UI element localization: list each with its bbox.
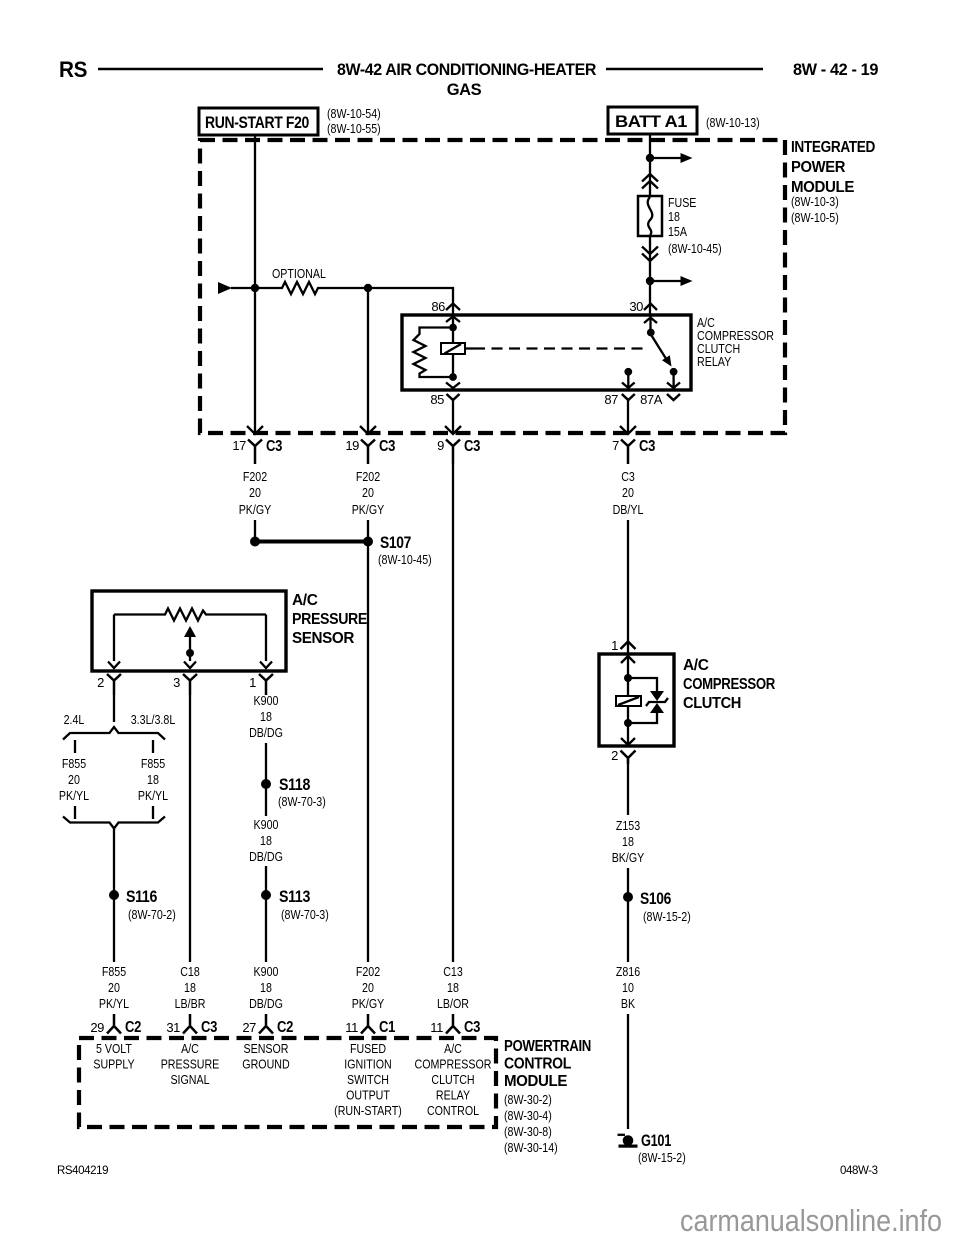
svg-text:SENSOR: SENSOR — [244, 1041, 289, 1056]
node clutch top junction — [624, 674, 632, 682]
svg-text:PRESSURE: PRESSURE — [161, 1057, 220, 1072]
svg-text:K900: K900 — [254, 693, 279, 708]
wire label C18 18 LB/BR — [175, 964, 206, 1011]
node splice S118 — [261, 779, 271, 789]
svg-text:1: 1 — [249, 675, 256, 690]
svg-text:COMPRESSOR: COMPRESSOR — [415, 1057, 492, 1072]
svg-text:Z153: Z153 — [616, 818, 640, 833]
svg-text:87A: 87A — [640, 392, 663, 407]
resistor OPTIONAL — [279, 282, 321, 294]
svg-text:DB/YL: DB/YL — [613, 502, 644, 517]
wire junction down to connector 19 C3 — [367, 288, 369, 433]
node splice dot right S107 — [363, 537, 373, 547]
border exit arrow at 7 C3 — [620, 426, 636, 434]
svg-text:18: 18 — [147, 772, 159, 787]
svg-text:GAS: GAS — [447, 81, 482, 99]
svg-text:(8W-10-45): (8W-10-45) — [378, 552, 432, 567]
resistor sensor element — [114, 609, 266, 621]
svg-text:19: 19 — [345, 438, 359, 453]
svg-text:10: 10 — [622, 980, 634, 995]
svg-text:S107: S107 — [380, 533, 411, 552]
svg-text:18: 18 — [260, 833, 272, 848]
brace split top — [63, 727, 165, 740]
wire pin 30 to pivot — [649, 315, 651, 331]
label POWERTRAIN CONTROL MODULE — [504, 1038, 591, 1155]
wire label Z153 18 BK/GY — [612, 818, 645, 865]
wire wiper to pin 3 — [189, 636, 191, 661]
svg-text:PK/GY: PK/GY — [239, 502, 272, 517]
label A/C COMPRESSOR CLUTCH — [683, 657, 775, 712]
svg-text:(8W-30-8): (8W-30-8) — [504, 1124, 552, 1139]
svg-text:F855: F855 — [102, 964, 126, 979]
svg-text:86: 86 — [431, 299, 445, 314]
node lower branch junction — [646, 277, 654, 285]
svg-text:INTEGRATED: INTEGRATED — [791, 139, 875, 156]
wire label C13 18 LB/OR — [437, 964, 469, 1011]
wire 2.4L branch lower — [74, 806, 76, 819]
svg-text:20: 20 — [622, 485, 634, 500]
diode bar with zener tails — [646, 698, 668, 706]
svg-text:2: 2 — [97, 675, 104, 690]
wire pin 1 to splice S118 — [265, 743, 267, 816]
PCM — [79, 964, 591, 1155]
svg-text:18: 18 — [260, 709, 272, 724]
border exit arrow at 17 C3 — [247, 426, 263, 434]
wire 7 C3 down to clutch pin 1 — [627, 520, 629, 654]
inline connector chevrons below fuse — [642, 247, 658, 262]
svg-text:7: 7 — [612, 438, 619, 453]
svg-text:(8W-70-2): (8W-70-2) — [128, 907, 176, 922]
wire fuse to relay pin 30 — [649, 236, 651, 315]
svg-text:G101: G101 — [641, 1131, 671, 1150]
svg-text:9: 9 — [437, 438, 444, 453]
connector 7 C3 — [621, 440, 635, 465]
pin 87 exit chevron inside — [622, 383, 635, 389]
wire label K900 18 DB/DG (lower) — [249, 817, 283, 864]
svg-text:CLUTCH: CLUTCH — [431, 1072, 474, 1087]
svg-text:CONTROL: CONTROL — [427, 1103, 479, 1118]
svg-text:30: 30 — [629, 299, 643, 314]
svg-text:SWITCH: SWITCH — [347, 1072, 389, 1087]
svg-text:20: 20 — [362, 485, 374, 500]
wire feed to junction — [231, 287, 279, 289]
pin 86 chevron — [446, 304, 460, 311]
svg-text:(8W-10-55): (8W-10-55) — [327, 121, 381, 136]
relay box A/C compressor clutch relay — [402, 315, 691, 390]
svg-text:(8W-10-45): (8W-10-45) — [668, 241, 722, 256]
node terminal 87 — [624, 368, 632, 376]
svg-text:FUSE: FUSE — [668, 195, 697, 210]
svg-text:A/C: A/C — [181, 1041, 199, 1056]
connector pin 3 — [183, 674, 197, 695]
wire label F855 18 PK/YL (3.3L) — [138, 756, 168, 803]
wire pin 1 to coil — [627, 656, 629, 723]
svg-text:A/C: A/C — [444, 1041, 462, 1056]
svg-text:2: 2 — [611, 748, 618, 763]
switch arm 30 to 87A — [652, 336, 667, 360]
border exit arrow at 19 C3 — [360, 426, 376, 434]
svg-text:S118: S118 — [279, 775, 310, 794]
wire RUN-START F20 to connector 17 C3 — [254, 135, 256, 433]
svg-text:F202: F202 — [356, 964, 380, 979]
svg-text:C13: C13 — [443, 964, 463, 979]
svg-text:(8W-10-5): (8W-10-5) — [791, 210, 839, 225]
svg-text:3.3L/3.8L: 3.3L/3.8L — [131, 712, 176, 727]
svg-text:(8W-15-2): (8W-15-2) — [643, 909, 691, 924]
connector pin 2 — [621, 751, 636, 765]
wire BATT A1 down to fuse — [649, 134, 651, 196]
clutch coil symbol — [616, 696, 641, 706]
fuse feed box RUN-START F20 — [199, 108, 318, 135]
svg-text:F855: F855 — [62, 756, 86, 771]
wire label C3 20 DB/YL — [613, 469, 644, 517]
wiper arrow — [184, 626, 196, 637]
wire coil to pin 2 — [627, 723, 629, 745]
svg-text:GROUND: GROUND — [242, 1057, 289, 1072]
wire resistor to relay pin 86 — [321, 288, 453, 315]
svg-text:C3: C3 — [201, 1019, 218, 1036]
node coil bottom junction — [449, 373, 457, 381]
svg-text:18: 18 — [447, 980, 459, 995]
svg-text:87: 87 — [604, 392, 618, 407]
wire branch arrow right (upper) — [650, 157, 682, 159]
svg-text:F855: F855 — [141, 756, 165, 771]
pin label FUSED IGNITION SWITCH OUTPUT (RUN-START) — [334, 1041, 402, 1118]
svg-text:20: 20 — [249, 485, 261, 500]
svg-text:11: 11 — [430, 1020, 443, 1035]
header rule right — [606, 68, 763, 71]
wire label Z816 10 BK — [616, 964, 640, 1011]
node coil top junction — [449, 324, 457, 332]
svg-text:18: 18 — [184, 980, 196, 995]
svg-text:20: 20 — [362, 980, 374, 995]
FOOTER — [57, 1165, 942, 1238]
node clutch bottom junction — [624, 719, 632, 727]
connector pin 2 — [107, 674, 121, 695]
svg-text:C1: C1 — [379, 1019, 396, 1036]
connector 31 C3 — [183, 1014, 197, 1034]
wire 3.3L branch lower — [152, 806, 154, 819]
svg-text:A/C: A/C — [683, 657, 709, 674]
wire label F202 20 PK/GY (left) — [239, 469, 272, 517]
svg-text:(8W-30-14): (8W-30-14) — [504, 1140, 558, 1155]
node switch pivot — [647, 329, 655, 337]
pin 30 entry chevron inside — [644, 318, 657, 324]
svg-text:RELAY: RELAY — [697, 354, 731, 369]
svg-text:PK/YL: PK/YL — [138, 788, 168, 803]
svg-text:PK/GY: PK/GY — [352, 502, 385, 517]
pin 1 entry chevron inside — [621, 656, 635, 663]
C3ROW — [232, 426, 655, 962]
svg-text:PK/GY: PK/GY — [352, 996, 385, 1011]
connector 17 C3 — [248, 440, 262, 465]
wire 3.3L branch upper — [152, 740, 154, 753]
IPM — [200, 134, 875, 433]
integrated power module dashed boundary — [200, 140, 785, 433]
wire pin 85 to connector 9 C3 — [452, 400, 454, 433]
svg-text:A/C: A/C — [292, 592, 318, 609]
svg-text:(8W-30-4): (8W-30-4) — [504, 1108, 552, 1123]
connector pin 1 chevron — [621, 642, 636, 650]
LEFTWIRES — [59, 693, 329, 962]
sensor box A/C pressure sensor — [92, 591, 286, 671]
svg-text:MODULE: MODULE — [504, 1073, 567, 1090]
svg-text:C3: C3 — [266, 438, 283, 455]
wire sensor right leg — [265, 615, 267, 662]
node terminal 87A — [670, 368, 678, 376]
svg-text:18: 18 — [622, 834, 634, 849]
svg-text:3: 3 — [173, 675, 180, 690]
label A/C COMPRESSOR CLUTCH RELAY — [697, 315, 774, 369]
svg-text:RS: RS — [59, 57, 87, 82]
svg-text:C3: C3 — [639, 438, 656, 455]
svg-text:27: 27 — [242, 1020, 256, 1035]
suppression diode branch wire — [628, 678, 657, 723]
svg-text:85: 85 — [430, 392, 444, 407]
svg-text:RS404219: RS404219 — [57, 1165, 108, 1177]
pin label 5 VOLT SUPPLY — [93, 1041, 135, 1072]
svg-text:(RUN-START): (RUN-START) — [334, 1103, 402, 1118]
pin 85 connector below box — [447, 394, 460, 400]
wire label F855 20 PK/YL (2.4L) — [59, 756, 89, 803]
battery feed box BATT A1 — [608, 107, 697, 134]
diode top triangle — [650, 691, 664, 701]
splice bar S107 — [255, 540, 368, 544]
svg-text:(8W-10-3): (8W-10-3) — [791, 194, 839, 209]
svg-text:(8W-70-3): (8W-70-3) — [281, 907, 329, 922]
TOPBOXES — [199, 106, 760, 136]
wire pin 2 down — [627, 758, 629, 815]
wire label F855 20 PK/YL (bottom) — [99, 964, 129, 1011]
svg-text:048W-3: 048W-3 — [840, 1165, 878, 1177]
pin label A/C PRESSURE SIGNAL — [161, 1041, 220, 1087]
svg-text:8W-42 AIR CONDITIONING-HEATER: 8W-42 AIR CONDITIONING-HEATER — [337, 61, 596, 79]
svg-text:11: 11 — [345, 1020, 358, 1035]
svg-text:C3: C3 — [464, 1019, 481, 1036]
svg-text:8W - 42 - 19: 8W - 42 - 19 — [793, 61, 878, 79]
node splice S116 — [109, 890, 119, 900]
svg-text:LB/BR: LB/BR — [175, 996, 206, 1011]
node splice dot left — [250, 537, 260, 547]
svg-text:SUPPLY: SUPPLY — [93, 1057, 135, 1072]
svg-text:RUN-START F20: RUN-START F20 — [205, 114, 309, 132]
pin 86 entry chevron inside — [446, 317, 460, 323]
pin 87A connector below box — [667, 394, 680, 400]
wire label K900 18 DB/DG (bottom) — [249, 964, 283, 1011]
pin 87 connector below box — [622, 394, 635, 400]
svg-text:carmanualsonline.info: carmanualsonline.info — [680, 1203, 942, 1238]
svg-text:DB/DG: DB/DG — [249, 849, 283, 864]
pin label SENSOR GROUND — [242, 1041, 289, 1072]
pin 30 chevron — [644, 304, 657, 311]
svg-text:K900: K900 — [254, 964, 279, 979]
border exit arrow at 9 C3 — [445, 426, 461, 434]
wire branch arrow right (lower) — [650, 280, 682, 282]
svg-text:SENSOR: SENSOR — [292, 630, 354, 647]
svg-text:17: 17 — [232, 438, 246, 453]
label INTEGRATED POWER MODULE — [791, 139, 875, 225]
brace merge bottom — [63, 817, 165, 829]
wire merge to splice S116 — [113, 829, 115, 962]
svg-text:OPTIONAL: OPTIONAL — [272, 266, 326, 281]
svg-text:PK/YL: PK/YL — [99, 996, 129, 1011]
svg-text:PK/YL: PK/YL — [59, 788, 89, 803]
svg-text:C18: C18 — [180, 964, 200, 979]
wire pin 2 to engine-option split — [113, 695, 115, 722]
header rule left — [98, 68, 323, 71]
wire S118 to PCM 27 C2 — [265, 866, 267, 962]
wire sensor left leg — [113, 615, 115, 662]
pin 2 exit chevron inside — [621, 738, 635, 745]
svg-text:31: 31 — [166, 1020, 180, 1035]
clutch box A/C compressor clutch — [599, 654, 674, 746]
svg-text:DB/DG: DB/DG — [249, 996, 283, 1011]
off-page feed arrow into optional wire — [218, 282, 232, 294]
mechanical linkage dashed — [474, 347, 645, 349]
svg-text:IGNITION: IGNITION — [344, 1057, 391, 1072]
svg-text:CLUTCH: CLUTCH — [683, 695, 741, 712]
pin 87A exit chevron inside — [667, 383, 680, 389]
connector 11 C1 — [361, 1014, 375, 1034]
node splice S113 — [261, 890, 271, 900]
svg-text:S116: S116 — [126, 887, 157, 906]
connector 19 C3 — [361, 440, 375, 465]
relay coil symbol — [441, 343, 465, 354]
wire pin 87 to connector 7 C3 — [627, 400, 629, 433]
svg-text:C2: C2 — [277, 1019, 293, 1036]
svg-text:1: 1 — [611, 638, 618, 653]
svg-text:POWER: POWER — [791, 159, 845, 176]
pin 85 exit chevron inside — [446, 383, 460, 389]
svg-text:LB/OR: LB/OR — [437, 996, 469, 1011]
wire into splice S107 left — [254, 520, 256, 538]
CLUTCH — [599, 638, 775, 1165]
svg-text:OUTPUT: OUTPUT — [346, 1088, 390, 1103]
svg-text:20: 20 — [108, 980, 120, 995]
wire 87A stub — [672, 372, 674, 390]
pin 2 exit chevron — [108, 662, 120, 669]
wire 2.4L branch upper — [74, 740, 76, 753]
wire label F202 20 PK/GY (bottom) — [352, 964, 385, 1011]
wire pin 3 to PCM 31 C3 — [189, 695, 191, 962]
svg-text:(8W-70-3): (8W-70-3) — [278, 794, 326, 809]
resistor relay coil shunt — [414, 328, 454, 378]
node BATT branch junction — [646, 154, 654, 162]
node junction to 19 C3 — [364, 284, 372, 292]
RELAY — [402, 299, 774, 433]
pin label A/C COMPRESSOR CLUTCH RELAY CONTROL — [415, 1041, 492, 1118]
svg-text:Z816: Z816 — [616, 964, 640, 979]
wire 9 C3 down to 11 C3 — [452, 464, 454, 962]
svg-text:(8W-10-54): (8W-10-54) — [327, 106, 381, 121]
svg-text:5 VOLT: 5 VOLT — [96, 1041, 132, 1056]
svg-text:RELAY: RELAY — [436, 1088, 470, 1103]
svg-text:(8W-10-13): (8W-10-13) — [706, 115, 760, 130]
wire pin 86 to coil — [452, 315, 454, 377]
svg-text:2.4L: 2.4L — [64, 712, 85, 727]
inline connector chevrons above fuse — [642, 174, 658, 189]
svg-text:15A: 15A — [668, 224, 687, 239]
svg-text:SIGNAL: SIGNAL — [170, 1072, 209, 1087]
connector pin 1 — [259, 674, 273, 695]
connector 27 C2 — [259, 1014, 273, 1034]
pin 1 exit chevron — [260, 662, 272, 669]
svg-text:S106: S106 — [640, 889, 671, 908]
powertrain control module dashed boundary — [79, 1038, 496, 1127]
svg-text:BK: BK — [621, 996, 635, 1011]
connector 29 C2 — [107, 1014, 121, 1034]
wire label K900 18 DB/DG (upper) — [249, 693, 283, 740]
wire label F202 20 PK/GY (middle) — [352, 469, 385, 517]
svg-text:20: 20 — [68, 772, 80, 787]
node splice S106 — [623, 892, 633, 902]
svg-text:POWERTRAIN: POWERTRAIN — [504, 1038, 591, 1055]
node junction on RUN-START wire — [251, 284, 259, 292]
ground G101 symbol — [618, 1134, 626, 1136]
pin 3 exit chevron — [184, 662, 196, 669]
wire 87 stub — [627, 372, 629, 390]
svg-text:BK/GY: BK/GY — [612, 850, 645, 865]
svg-text:18: 18 — [260, 980, 272, 995]
svg-text:S113: S113 — [279, 887, 310, 906]
wire S107 down to 11 C1 — [367, 520, 369, 962]
svg-text:18: 18 — [668, 209, 680, 224]
svg-text:C3: C3 — [379, 438, 396, 455]
svg-text:29: 29 — [90, 1020, 104, 1035]
svg-text:COMPRESSOR: COMPRESSOR — [683, 676, 775, 693]
wire S106 to ground G101 — [627, 1014, 629, 1129]
svg-text:F202: F202 — [243, 469, 267, 484]
diode bottom triangle — [650, 703, 664, 713]
svg-text:C2: C2 — [125, 1019, 141, 1036]
svg-text:PRESSURE: PRESSURE — [292, 611, 367, 628]
svg-text:K900: K900 — [254, 817, 279, 832]
mechanical linkage stub — [465, 347, 474, 349]
svg-text:BATT A1: BATT A1 — [615, 113, 687, 131]
svg-text:F202: F202 — [356, 469, 380, 484]
svg-text:(8W-30-2): (8W-30-2) — [504, 1092, 552, 1107]
svg-text:CONTROL: CONTROL — [504, 1056, 571, 1073]
connector 9 C3 — [446, 440, 460, 465]
svg-text:C3: C3 — [464, 438, 481, 455]
label A/C PRESSURE SENSOR — [292, 592, 367, 647]
SENSOR — [92, 591, 367, 695]
svg-text:FUSED: FUSED — [350, 1041, 386, 1056]
wire to splice S106 — [627, 868, 629, 962]
node wiper junction — [186, 649, 194, 657]
fuse FUSE 18 15A — [638, 196, 662, 236]
svg-text:(8W-15-2): (8W-15-2) — [638, 1150, 686, 1165]
HEADER — [59, 57, 878, 99]
connector 11 C3 — [446, 1014, 460, 1034]
svg-text:DB/DG: DB/DG — [249, 725, 283, 740]
svg-text:C3: C3 — [621, 469, 635, 484]
